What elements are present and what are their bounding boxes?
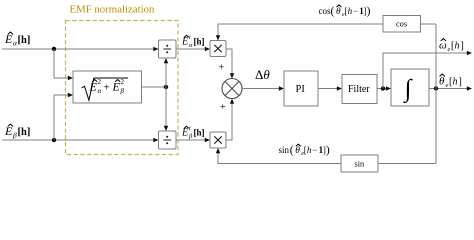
svg-text:α: α <box>98 87 102 95</box>
svg-text:[h]: [h] <box>18 127 31 138</box>
summer circle with X <box>222 79 242 99</box>
svg-text:cos: cos <box>319 6 331 16</box>
label ω̂_e[h] <box>439 39 464 54</box>
node junction speed tap <box>381 86 385 90</box>
node input label Ê_β[h] <box>4 124 30 140</box>
svg-text:[h]: [h] <box>194 37 205 47</box>
block sin <box>341 155 378 172</box>
wire sin feedback into bottom multiplier <box>218 152 341 164</box>
arrowhead β into bottom divider <box>153 138 158 142</box>
block PI <box>284 71 318 106</box>
svg-text:θ: θ <box>295 146 300 156</box>
svg-text:t: t <box>189 125 191 132</box>
svg-text:β: β <box>120 87 125 95</box>
wire α input line <box>2 48 156 50</box>
svg-text:−: − <box>353 6 358 16</box>
svg-text:∫: ∫ <box>403 76 413 104</box>
svg-text:2: 2 <box>121 78 125 86</box>
wire cos feedback into top multiplier <box>218 24 383 37</box>
label cos(θ̂e[h-1]) <box>319 5 371 18</box>
node input label Ê_α[h] <box>4 32 30 48</box>
multiplier top × <box>210 41 226 57</box>
svg-text:PI: PI <box>296 84 306 95</box>
svg-text:ω: ω <box>439 40 447 52</box>
wire magnitude to bottom divider <box>165 87 167 128</box>
svg-text:h: h <box>453 77 458 88</box>
svg-text:]: ] <box>461 41 464 52</box>
svg-text:]: ] <box>459 77 462 88</box>
svg-text:Filter: Filter <box>348 84 370 95</box>
wire top multiplier to summer <box>226 49 232 75</box>
svg-text:β: β <box>12 131 17 140</box>
dashed region EMF normalization <box>66 21 179 155</box>
svg-text:E: E <box>181 128 188 139</box>
node junction magnitude output <box>164 85 168 89</box>
block magnitude sqrt(Êα²+Êβ²) <box>73 71 142 103</box>
svg-text:[h]: [h] <box>194 128 205 138</box>
svg-text:sin: sin <box>355 159 366 168</box>
wire bottom divider to bottom multiplier <box>176 139 206 141</box>
node junction on β line <box>52 138 56 142</box>
svg-text:θ: θ <box>439 76 445 88</box>
wire β tap up to magnitude block <box>54 95 69 140</box>
label Ê^t_α[h] <box>181 34 205 49</box>
svg-text:h: h <box>348 6 353 16</box>
wire β input line <box>2 139 156 141</box>
svg-text:h: h <box>455 41 460 52</box>
wire speed output ω̂e[h] <box>383 53 468 89</box>
svg-text:EMF normalization: EMF normalization <box>70 4 155 16</box>
label Ê^t_β[h] <box>181 125 205 140</box>
svg-text:(: ( <box>331 6 335 18</box>
wire PI to Filter <box>318 88 338 90</box>
wire α tap down to magnitude block <box>54 49 69 78</box>
svg-text:2: 2 <box>98 78 102 86</box>
wire feedback to sin <box>378 163 436 165</box>
multiplier bottom × <box>210 132 226 148</box>
wire feedback vertical <box>435 24 437 164</box>
block integrator ∫ <box>391 69 429 106</box>
arrowhead α into top divider <box>153 47 158 51</box>
block cos <box>383 16 421 33</box>
svg-text:): ) <box>326 145 330 157</box>
svg-text:cos: cos <box>396 20 407 29</box>
svg-text:(: ( <box>290 145 294 157</box>
label θ̂_e[h] <box>439 74 462 89</box>
svg-text:−: − <box>312 145 317 155</box>
wire magnitude to top divider <box>165 61 167 87</box>
wire theta output θ̂e[h] <box>429 88 468 90</box>
node junction on α line <box>52 47 56 51</box>
divider top ÷ <box>159 40 177 58</box>
svg-text:E: E <box>181 37 188 48</box>
wire Filter to integrator <box>377 88 387 90</box>
node junction feedback tap <box>434 86 438 90</box>
svg-text:+: + <box>220 102 226 113</box>
svg-text:sin: sin <box>279 145 290 155</box>
wire magnitude output <box>142 86 167 88</box>
wire bottom multiplier to summer <box>226 102 232 140</box>
wire summer to PI <box>242 88 280 90</box>
svg-text:[h]: [h] <box>18 35 31 46</box>
svg-text:t: t <box>189 34 191 41</box>
wire top divider to top multiplier <box>176 48 206 50</box>
svg-text:h: h <box>307 145 312 155</box>
svg-text:θ: θ <box>336 7 341 17</box>
wire feedback to cos <box>421 23 437 25</box>
svg-text:+: + <box>219 63 225 74</box>
block Filter <box>342 75 377 104</box>
label sin(θ̂e[h-1]) <box>279 144 330 157</box>
svg-text:): ) <box>367 6 371 18</box>
divider bottom ÷ <box>159 131 177 149</box>
svg-text:+: + <box>104 82 110 94</box>
svg-text:Δθ: Δθ <box>255 67 270 82</box>
